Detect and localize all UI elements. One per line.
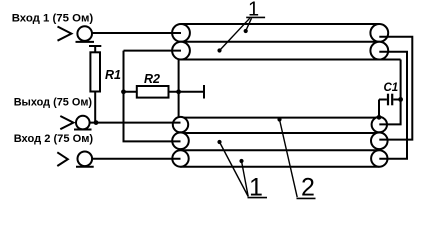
svg-text:Вход 1 (75 Ом): Вход 1 (75 Ом)	[12, 12, 94, 24]
svg-text:Выход (75 Ом): Выход (75 Ом)	[14, 96, 93, 108]
svg-text:R2: R2	[144, 72, 160, 86]
svg-text:R1: R1	[105, 68, 121, 82]
svg-text:1: 1	[249, 174, 263, 202]
svg-text:2: 2	[301, 174, 315, 202]
svg-text:C1: C1	[384, 82, 399, 94]
svg-text:Вход 2 (75 Ом): Вход 2 (75 Ом)	[14, 133, 94, 145]
svg-text:1: 1	[248, 0, 259, 20]
